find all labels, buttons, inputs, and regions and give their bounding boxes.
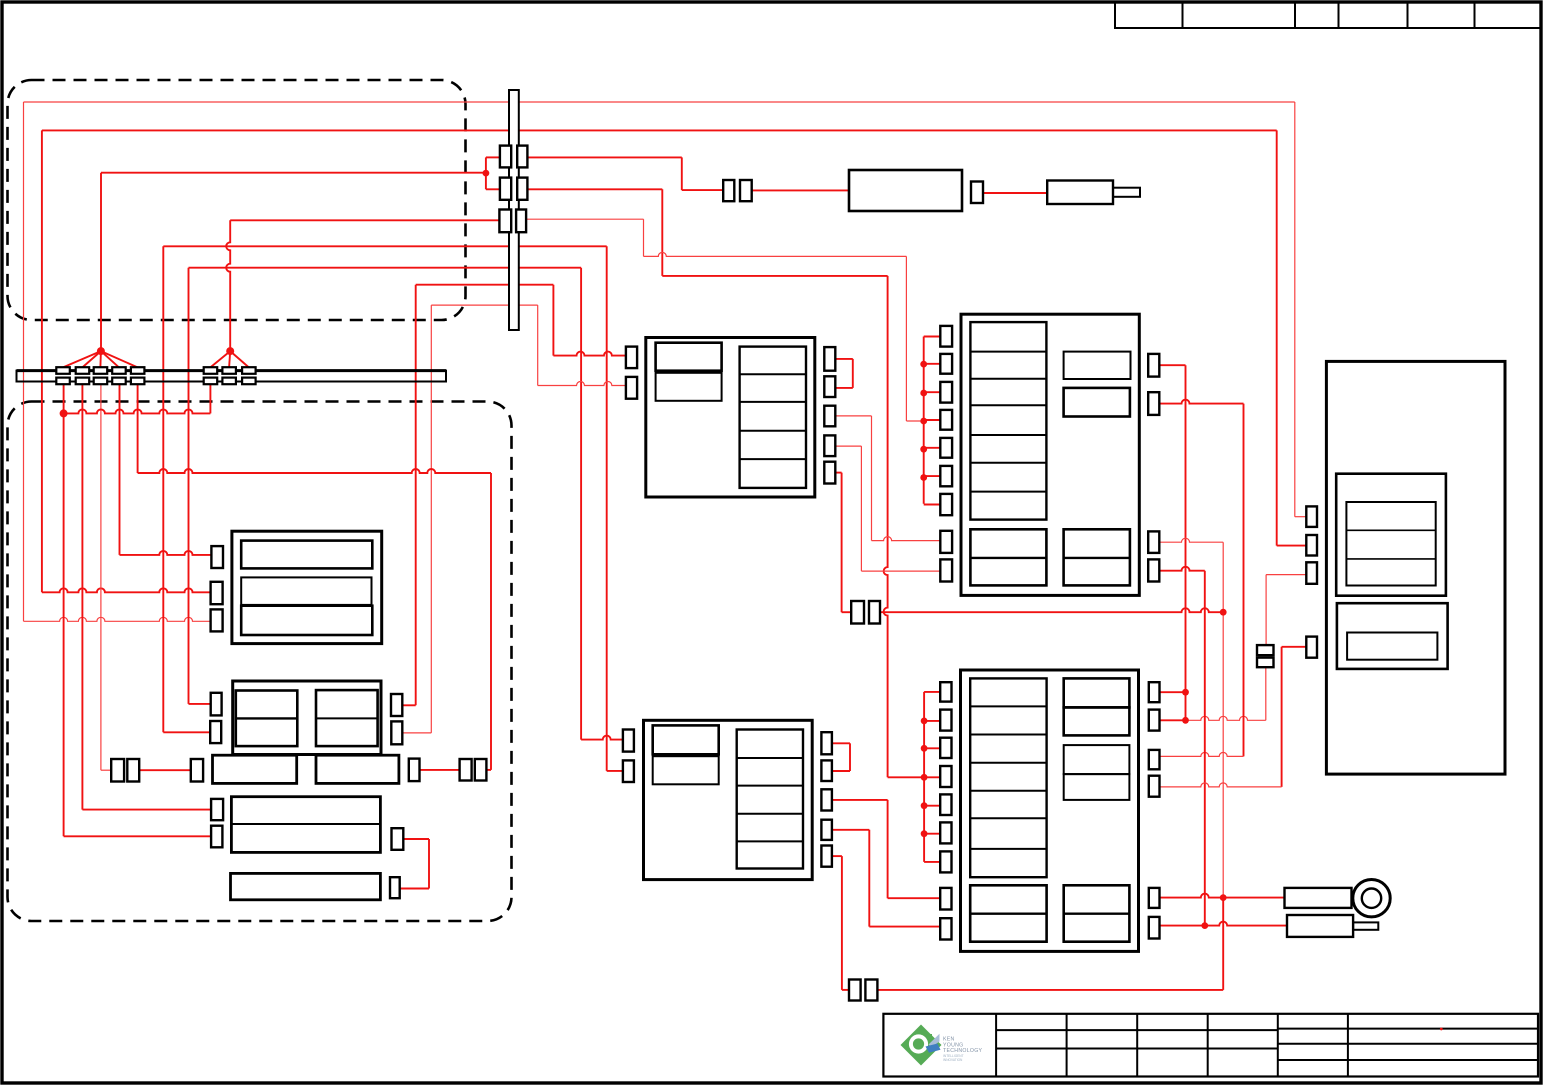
title strip cells top right	[1115, 3, 1540, 28]
monitor connectors	[211, 546, 223, 568]
wire net W10 battery right CN1 to module A CN1	[402, 704, 415, 706]
motor body 1	[1285, 888, 1352, 908]
module D bottom left group	[970, 885, 1046, 941]
module C right column	[737, 730, 803, 869]
wire net W15 module A R5 via link pair to junction	[835, 472, 841, 474]
wire net W32 inverter right to ground bar	[403, 838, 429, 840]
inline connector pair top	[723, 180, 734, 201]
wire net W20 panel CN3 to stacked pair (light)	[1266, 574, 1306, 576]
module B outer	[961, 314, 1139, 595]
motor feed lines	[1160, 894, 1285, 898]
base bar left terminal	[191, 759, 203, 782]
wire busbar left pair links (light drop)	[100, 384, 102, 771]
control panel display rows	[1346, 502, 1435, 586]
wire net W19 module B R4 riser	[1159, 567, 1205, 571]
wire net W21 panel CN4 to module D R4	[1282, 646, 1307, 648]
left link pair	[111, 759, 124, 782]
battery base bar left	[213, 755, 297, 783]
module A outer	[646, 338, 815, 498]
monitor outer	[232, 531, 382, 643]
busbar taps group2 top	[204, 367, 218, 374]
module B right box 1	[1064, 352, 1131, 379]
wire net W1 monitor CN3 to panel CN1 (light)	[24, 101, 1295, 103]
wire net W31 bus to monitor CN1	[119, 384, 121, 555]
fuse pair 2	[500, 178, 511, 200]
wire net W13 module A R3 to module B BL1 (light)	[835, 415, 871, 417]
wire busbar right pair via 473 run	[137, 384, 139, 474]
bus group2 fan-out	[210, 351, 230, 367]
module B bottom left group	[970, 529, 1046, 585]
wire net W8 fuse pair2 to module D chain	[527, 188, 662, 190]
title block columns	[995, 1014, 997, 1077]
dashed enclosure box 2 (lower left)	[8, 402, 512, 922]
control panel lower window	[1347, 633, 1437, 660]
module A right connectors	[824, 347, 835, 371]
junction dot W3	[483, 170, 490, 177]
wire net W2 monitor CN2 to panel CN2	[42, 129, 1277, 131]
module D left connectors	[940, 682, 951, 701]
fuse pair 1	[500, 146, 511, 168]
battery left connectors	[211, 693, 222, 716]
junction dot W19	[1201, 922, 1208, 929]
module B chain dots	[920, 361, 927, 368]
wire net W18 module B R3 riser to motor line (light)	[1159, 538, 1223, 542]
svg-text:TECHNOLOGY: TECHNOLOGY	[943, 1048, 983, 1054]
module C inner block 1	[653, 725, 719, 754]
module D chain dots	[921, 718, 928, 725]
module D right boxes top	[1064, 678, 1130, 707]
module C right connectors	[821, 732, 832, 754]
module B right connectors	[1148, 354, 1159, 377]
title block rows right section	[1278, 1028, 1538, 1030]
wire net W24 module C R3 to module D BL1	[832, 799, 888, 801]
base bar right terminal	[409, 759, 420, 782]
module C inner block 2	[653, 756, 719, 784]
wire net W9 fuse pair3 to module B chain (light)	[526, 218, 643, 220]
wire net W25 module C R4 to module D BL2	[832, 829, 869, 831]
busbar taps group1 bottom	[56, 378, 70, 385]
battery base bar right	[316, 755, 399, 783]
module D left junction chain	[923, 692, 925, 862]
motor circle	[1353, 880, 1390, 917]
junction dot W18 upper	[1220, 609, 1227, 616]
logo green diamond	[901, 1025, 942, 1066]
module D right connectors	[1149, 682, 1160, 702]
horizontal busbar	[17, 371, 447, 382]
battery right connectors	[391, 694, 402, 716]
module D R2 link to stacked pair drop (light)	[1186, 716, 1266, 720]
junction dot W18 lower	[1220, 894, 1227, 901]
busbar taps group2 bottom	[204, 378, 218, 385]
logo blue ribbon light	[929, 1034, 940, 1047]
wire net W17 module B R2 to module D R3	[1159, 400, 1243, 404]
monitor bar 2	[241, 577, 371, 605]
wire net W16 module B R1 down right side	[1159, 364, 1185, 366]
plug tab	[1113, 188, 1140, 197]
battery right cell	[316, 690, 378, 746]
bottom link pair	[849, 980, 861, 1001]
wire net W23 module C R1-R2 loop	[832, 742, 850, 744]
module C left connectors	[623, 730, 634, 752]
module D left column	[970, 678, 1046, 877]
module A inner block 2	[656, 373, 722, 401]
wire net W12 module A R1-R2 loop	[835, 358, 853, 360]
battery pack outer	[233, 681, 381, 755]
module D R2 stub	[1160, 719, 1186, 721]
svg-text:INNOVATION: INNOVATION	[943, 1058, 963, 1062]
module C outer	[644, 720, 813, 879]
vertical busbar	[509, 90, 519, 330]
junction dot3	[60, 409, 68, 417]
wire net W6 battery CN1 to module C CN1	[189, 703, 211, 705]
battery left cell	[236, 691, 297, 747]
module B left junction chain	[923, 337, 925, 504]
control panel connectors	[1306, 506, 1317, 527]
control panel display frame	[1336, 474, 1446, 596]
wire net W29 dot3 run to inverter CN2 and bus group2	[63, 384, 65, 837]
busbar taps group1 top	[56, 367, 70, 374]
module B left column	[970, 322, 1046, 519]
relay box	[849, 170, 962, 211]
monitor bar 1	[241, 541, 372, 569]
module D right boxes mid	[1064, 745, 1130, 774]
bus group1 fan dot	[97, 347, 105, 355]
wire net W7 fuse pair1 to relay and plug	[527, 156, 681, 158]
right link pair	[460, 759, 472, 781]
ground bar right connector	[390, 877, 400, 898]
plug connector	[1047, 181, 1113, 205]
module B right box 2	[1064, 388, 1130, 417]
wire net W3 bus group1 to fuse pair	[101, 172, 486, 174]
module B bottom right group	[1064, 529, 1130, 585]
stacked terminal pair	[1257, 645, 1274, 655]
logo blue ribbon dark	[926, 1044, 941, 1053]
junction dots right riser	[1182, 689, 1189, 696]
module D outer	[961, 670, 1139, 951]
module A inner block 1	[656, 343, 722, 371]
inverter left connectors	[211, 799, 223, 820]
bus group2 fan dot	[226, 347, 234, 355]
module B left connectors	[940, 326, 952, 347]
wire net W30 bus to inverter CN1	[81, 384, 83, 810]
motor body 2	[1287, 915, 1353, 937]
dashed enclosure box 1 (top left)	[8, 80, 466, 320]
fuse pair 3	[499, 210, 511, 233]
inverter right connector	[392, 828, 404, 850]
relay terminal	[971, 182, 983, 204]
control panel lower frame	[1337, 603, 1448, 669]
tiny red revision mark	[1440, 1028, 1443, 1031]
wire net W4 bus group2 to fuse pair3	[230, 219, 499, 221]
title block rows left section	[996, 1029, 1278, 1031]
wire net W14 module A R4 to module B BL2 (light)	[835, 445, 861, 447]
wire net W26 module C R5 bottom run to motor junction	[832, 855, 842, 857]
monitor bar 3	[241, 606, 372, 635]
module A left connectors	[626, 347, 637, 369]
motor tab	[1353, 922, 1378, 929]
logo white C ring	[909, 1034, 928, 1053]
control panel outer	[1326, 361, 1505, 774]
mid link pair	[851, 601, 864, 624]
wire net W11 battery right CN2 to module A CN2 (light)	[402, 732, 431, 734]
wire net W5 battery CN2 to module C CN2	[163, 731, 210, 733]
bus group1 fan-out	[63, 351, 101, 367]
ground bar	[231, 873, 381, 899]
module D R1 stub	[1160, 691, 1186, 693]
inverter outer	[231, 797, 380, 853]
module D bottom right group	[1064, 885, 1130, 941]
title block frame	[883, 1014, 1538, 1077]
module A right column	[740, 347, 806, 488]
